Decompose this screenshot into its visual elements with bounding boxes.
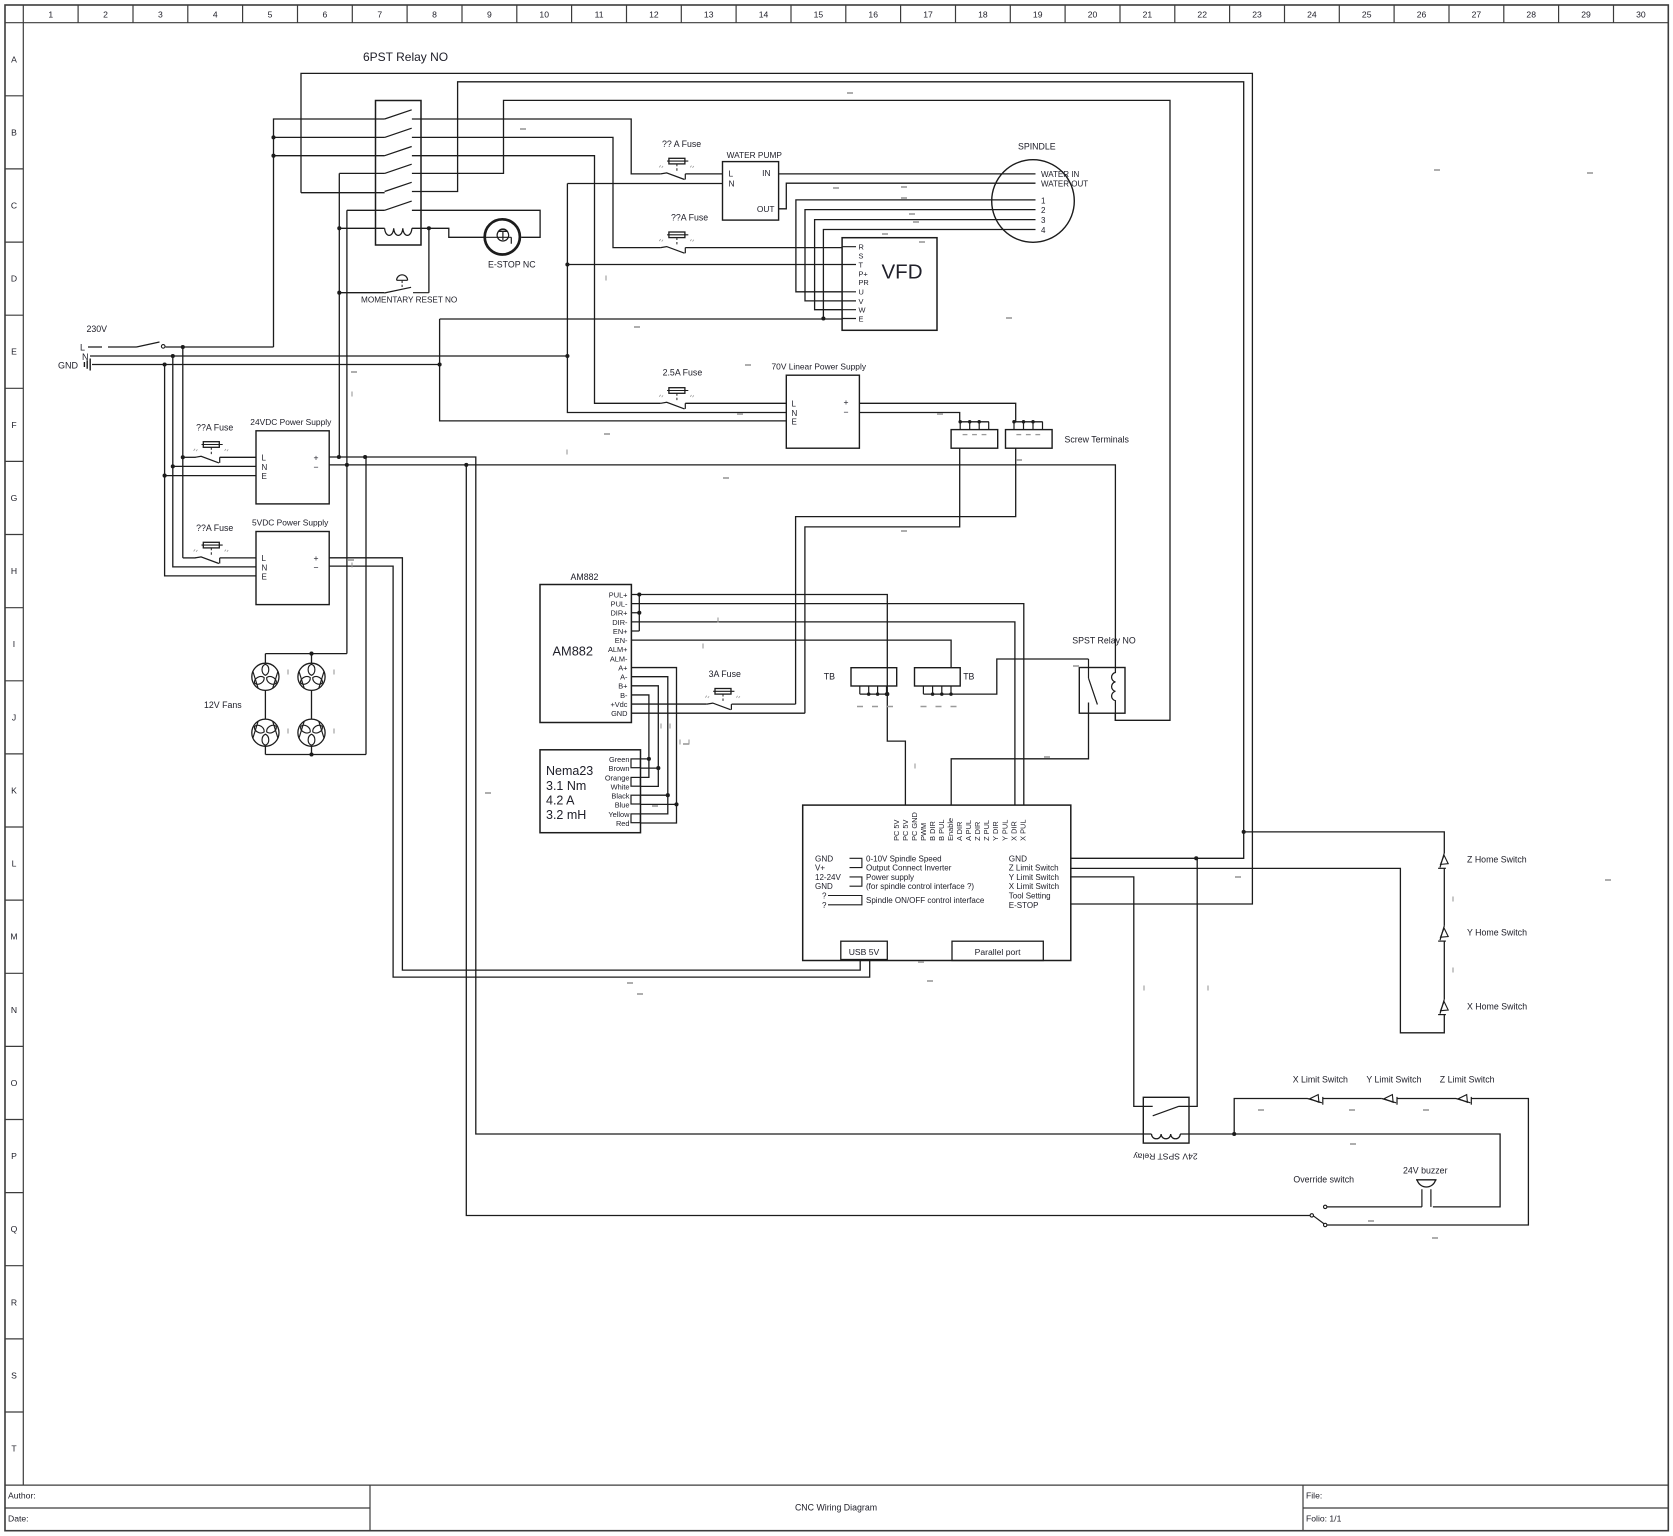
wire 24V- down to override switch: [466, 465, 1310, 1216]
svg-text:S: S: [11, 1370, 17, 1380]
svg-text:13: 13: [704, 10, 714, 20]
svg-text:22: 22: [1197, 10, 1207, 20]
svg-text:N: N: [262, 564, 268, 573]
SPST relay coil: [1112, 668, 1116, 713]
wire latch vertical contact4/coil/reset to 24V+: [339, 173, 384, 457]
wire DIR- to X DIR: [631, 622, 1015, 805]
svg-text:N: N: [729, 178, 735, 188]
svg-text:3: 3: [158, 10, 163, 20]
svg-text:24VDC Power Supply: 24VDC Power Supply: [250, 417, 332, 427]
svg-text:P: P: [11, 1151, 17, 1161]
X home switch: [1440, 999, 1444, 1013]
svg-text:Folio: 1/1: Folio: 1/1: [1306, 1514, 1342, 1524]
svg-text:26: 26: [1417, 10, 1427, 20]
svg-text:C: C: [11, 201, 17, 211]
svg-text:3A Fuse: 3A Fuse: [709, 669, 741, 679]
svg-text:B+: B+: [618, 682, 627, 691]
svg-text:Green: Green: [609, 755, 630, 764]
wire contact6 left down to 24V- and fans: [347, 210, 385, 653]
svg-text:Author:: Author:: [8, 1491, 36, 1501]
svg-text:VFD: VFD: [882, 261, 923, 284]
svg-text:E: E: [11, 347, 17, 357]
svg-text:AM882: AM882: [553, 644, 594, 659]
VFD pin stubs: [842, 247, 856, 319]
screw terminal block 2: [1006, 430, 1053, 449]
svg-text:+Vdc: +Vdc: [610, 700, 627, 709]
fuse F4 ??A Fuse (24VDC PS): [195, 456, 220, 463]
svg-text:24: 24: [1307, 10, 1317, 20]
wire: [1397, 1098, 1456, 1100]
svg-text:3: 3: [1041, 216, 1046, 225]
wire L to contacts 1-3: [274, 119, 385, 347]
svg-text:W: W: [859, 306, 866, 315]
svg-text:B: B: [11, 127, 17, 137]
svg-text:X DIR: X DIR: [1009, 821, 1018, 841]
svg-text:8: 8: [432, 10, 437, 20]
svg-text:??A Fuse: ??A Fuse: [196, 423, 233, 433]
svg-text:DIR-: DIR-: [612, 618, 628, 627]
svg-text:29: 29: [1581, 10, 1591, 20]
wire contact6 to E-STOP right: [412, 210, 540, 237]
svg-text:DIR+: DIR+: [610, 609, 627, 618]
svg-text:+: +: [844, 397, 849, 407]
wire N to VFD T: [567, 264, 842, 266]
svg-text:L: L: [729, 169, 734, 179]
wire +Vdc to 3A fuse: [631, 703, 706, 705]
svg-text:TB: TB: [824, 672, 835, 682]
svg-text:File:: File:: [1306, 1491, 1322, 1501]
svg-text:GND: GND: [1009, 854, 1027, 863]
wire N to pump and 70V PS: [567, 184, 786, 413]
svg-text:0-10V Spindle Speed: 0-10V Spindle Speed: [866, 854, 942, 863]
svg-text:−: −: [844, 407, 849, 417]
wires AM882 A/B to Nema23: [631, 668, 676, 823]
svg-text:Blue: Blue: [615, 801, 630, 810]
wire L down to PS fuses: [182, 347, 184, 558]
Nema23 pin pair brackets: [631, 759, 640, 768]
svg-text:PUL+: PUL+: [609, 590, 628, 599]
fuse F1 ?? A Fuse (water pump): [661, 173, 686, 180]
svg-text:L: L: [262, 454, 267, 463]
fan M1: [252, 663, 279, 690]
wire contact4 to SPST relay coil: [412, 100, 1170, 720]
svg-text:PUL-: PUL-: [611, 600, 628, 609]
svg-text:D: D: [11, 274, 17, 284]
svg-text:+: +: [314, 553, 319, 563]
wire GND down to PS E: [165, 365, 256, 576]
fan M2: [298, 663, 325, 690]
svg-text:N: N: [262, 463, 268, 472]
svg-text:−: −: [314, 563, 319, 573]
wire spindle 4 to E: [823, 230, 1035, 319]
svg-text:B PUL: B PUL: [937, 820, 946, 841]
wire E/GND to 70V E: [440, 319, 787, 421]
wire 5V+ to USB 5V: [329, 558, 860, 970]
svg-text:30: 30: [1636, 10, 1646, 20]
wire TB2 bus to SPST switch: [923, 659, 1088, 694]
wire: [1323, 1098, 1382, 1100]
svg-text:PC 5V: PC 5V: [892, 819, 901, 840]
svg-text:SPINDLE: SPINDLE: [1018, 142, 1056, 152]
wire fans top bus: [265, 653, 347, 655]
svg-text:U: U: [859, 288, 864, 297]
svg-text:Screw Terminals: Screw Terminals: [1065, 435, 1130, 445]
svg-text:USB 5V: USB 5V: [849, 947, 880, 957]
svg-text:2: 2: [1041, 206, 1046, 215]
wire fuse to pump L: [685, 173, 722, 175]
svg-text:GND: GND: [815, 854, 833, 863]
wire coil to buzzer right leg: [1180, 1134, 1500, 1207]
Y home switch: [1440, 926, 1444, 940]
svg-text:19: 19: [1033, 10, 1043, 20]
svg-text:Output Connect Inverter: Output Connect Inverter: [866, 864, 952, 873]
svg-text:2.5A Fuse: 2.5A Fuse: [663, 368, 703, 378]
svg-text:5VDC Power Supply: 5VDC Power Supply: [252, 518, 329, 528]
override SPDT switch: [1310, 1214, 1313, 1217]
svg-text:E-STOP: E-STOP: [1009, 901, 1039, 910]
wire 70V - to screw block1: [859, 413, 959, 422]
wire 24V- to SPST coil: [329, 465, 1115, 668]
wire screw2 + down to 3A fuse/+Vdc: [796, 448, 1016, 704]
fan M4: [298, 719, 325, 746]
24V SPST relay switch blade: [1153, 1106, 1179, 1115]
svg-text:25: 25: [1362, 10, 1372, 20]
svg-text:E: E: [262, 573, 267, 582]
wire GND to Z home switch: [1244, 832, 1445, 853]
svg-text:O: O: [11, 1078, 18, 1088]
svg-text:Spindle ON/OFF control interfa: Spindle ON/OFF control interface: [866, 896, 985, 905]
svg-text:R: R: [859, 243, 864, 252]
svg-text:IN: IN: [762, 168, 770, 178]
svg-text:24V SPST Relay: 24V SPST Relay: [1133, 1152, 1198, 1162]
wires AM882 PUL/DIR/EN bracket: [631, 595, 639, 632]
SPST relay switch: [1088, 659, 1090, 678]
svg-text:20: 20: [1088, 10, 1098, 20]
svg-text:Y Limit Switch: Y Limit Switch: [1009, 873, 1059, 882]
svg-text:I: I: [13, 639, 15, 649]
svg-text:T: T: [859, 260, 864, 269]
svg-text:Power supply: Power supply: [866, 873, 914, 882]
svg-text:L: L: [80, 343, 85, 353]
svg-text:A PUL: A PUL: [964, 820, 973, 841]
breakout left annotation brackets: [850, 858, 862, 867]
5VDC power supply box: [256, 532, 329, 605]
svg-text:Date:: Date:: [8, 1514, 29, 1524]
svg-text:WATER OUT: WATER OUT: [1041, 180, 1088, 189]
svg-text:Black: Black: [611, 791, 629, 800]
fuse F5 ??A Fuse (5VDC PS): [195, 557, 220, 564]
svg-text:A-: A-: [620, 673, 628, 682]
wire EN- to TB2: [631, 640, 951, 668]
svg-text:L: L: [792, 400, 797, 409]
Parallel port box: [952, 941, 1043, 960]
svg-text:AM882: AM882: [571, 572, 599, 582]
fuse F2 ??A Fuse (VFD): [661, 247, 686, 254]
svg-text:Z Limit Switch: Z Limit Switch: [1440, 1075, 1495, 1085]
wire up to X limit switch: [1234, 1099, 1307, 1135]
svg-text:A: A: [11, 54, 17, 64]
wire N bus: [90, 355, 567, 357]
fuse F6 3A Fuse: [707, 703, 732, 710]
wire Y Limit pin to 24V relay switch: [1070, 877, 1152, 1107]
svg-text:?: ?: [822, 901, 827, 910]
svg-text:PC 5V: PC 5V: [901, 819, 910, 840]
svg-text:H: H: [11, 566, 17, 576]
svg-text:Orange: Orange: [605, 773, 630, 782]
fuse F3 2.5A Fuse (70V PS): [661, 402, 686, 409]
svg-text:ALM+: ALM+: [608, 645, 628, 654]
terminal block TB1: [851, 668, 897, 686]
svg-text:E: E: [792, 417, 797, 426]
svg-text:−: −: [314, 462, 319, 472]
svg-text:MOMENTARY RESET NO: MOMENTARY RESET NO: [361, 296, 457, 305]
X limit switch: [1308, 1099, 1322, 1103]
svg-text:ALM-: ALM-: [610, 654, 628, 663]
svg-text:WATER PUMP: WATER PUMP: [727, 150, 783, 160]
wire override to buzzer left leg: [1327, 1206, 1422, 1208]
Y limit switch: [1382, 1099, 1396, 1103]
svg-text:EN-: EN-: [615, 636, 628, 645]
svg-text:Nema23: Nema23: [546, 764, 593, 778]
wire fuse to VFD R: [685, 247, 842, 249]
water pump box: [723, 162, 779, 221]
svg-text:+: +: [314, 452, 319, 462]
svg-text:12: 12: [649, 10, 659, 20]
svg-text:GND: GND: [815, 882, 833, 891]
svg-text:Yellow: Yellow: [608, 810, 630, 819]
svg-text:P+: P+: [859, 269, 868, 278]
svg-text:White: White: [611, 783, 630, 792]
wire 5V- to USB 5V: [329, 566, 870, 977]
wire screw1 - down to AM882 GND: [805, 448, 960, 713]
wire: [1443, 941, 1445, 999]
svg-text:10: 10: [539, 10, 549, 20]
spindle circle: [992, 160, 1075, 243]
relay K1 6PST contact block: [376, 101, 422, 246]
svg-text:X Limit Switch: X Limit Switch: [1293, 1075, 1348, 1085]
svg-text:OUT: OUT: [757, 204, 775, 214]
svg-text:M: M: [10, 932, 17, 942]
relay contacts 1-6 blades: [385, 110, 412, 119]
svg-text:11: 11: [595, 10, 604, 20]
24V SPST relay box: [1143, 1097, 1189, 1143]
svg-text:EN+: EN+: [613, 627, 628, 636]
svg-text:4.2 A: 4.2 A: [546, 794, 575, 808]
svg-text:Y Limit Switch: Y Limit Switch: [1366, 1075, 1421, 1085]
wire 70V + to screw block2: [859, 403, 1015, 422]
svg-text:PR: PR: [859, 278, 869, 287]
svg-text:WATER IN: WATER IN: [1041, 170, 1079, 179]
svg-text:Brown: Brown: [609, 764, 630, 773]
svg-text:Y Home Switch: Y Home Switch: [1467, 928, 1527, 938]
svg-text:3.2 mH: 3.2 mH: [546, 808, 586, 822]
Z limit switch: [1456, 1099, 1470, 1103]
svg-text:Z Limit Switch: Z Limit Switch: [1009, 864, 1059, 873]
svg-text:Enable: Enable: [946, 818, 955, 841]
svg-text:16: 16: [868, 10, 878, 20]
svg-text:Z PUL: Z PUL: [982, 820, 991, 841]
svg-text:Parallel port: Parallel port: [975, 947, 1021, 957]
svg-text:Y PUL: Y PUL: [1000, 820, 1009, 841]
svg-text:SPST Relay NO: SPST Relay NO: [1072, 636, 1136, 646]
screw terminal block 1: [951, 430, 998, 449]
24VDC power supply box: [256, 431, 329, 504]
fan M3: [252, 719, 279, 746]
svg-text:23: 23: [1252, 10, 1262, 20]
wire fan column right: [311, 654, 313, 755]
svg-text:PWM: PWM: [919, 823, 928, 841]
svg-text:6PST Relay NO: 6PST Relay NO: [363, 50, 448, 64]
svg-text:12-24V: 12-24V: [815, 873, 841, 882]
wire contact1 to pump fuse: [412, 119, 661, 174]
70V linear power supply box: [786, 375, 859, 448]
wire PUL+ 5V bus to TB1 and PC 5V: [639, 595, 905, 806]
svg-text:18: 18: [978, 10, 988, 20]
svg-text:21: 21: [1143, 10, 1153, 20]
wire chain to override switch: [1327, 1099, 1528, 1226]
SPST relay box: [1079, 668, 1125, 714]
svg-text:7: 7: [377, 10, 382, 20]
wire VFD E to GND: [440, 318, 842, 320]
svg-text:9: 9: [487, 10, 492, 20]
wires VFD U V W E to spindle 1-4: [796, 200, 1036, 292]
svg-text:PC GND: PC GND: [910, 812, 919, 841]
wire GND to screw1 -: [631, 712, 805, 714]
svg-text:A DIR: A DIR: [955, 822, 964, 841]
wire GND to 24V relay switch right: [1179, 858, 1198, 1106]
wire 24V+ to relay coil: [329, 457, 1151, 1134]
svg-text:27: 27: [1472, 10, 1482, 20]
svg-text:CNC Wiring Diagram: CNC Wiring Diagram: [795, 1503, 877, 1513]
svg-text:V+: V+: [815, 864, 825, 873]
svg-text:T: T: [11, 1444, 17, 1454]
svg-text:(for spindle control interface: (for spindle control interface ?): [866, 882, 974, 891]
svg-text:E: E: [859, 314, 864, 323]
svg-text:Red: Red: [616, 819, 630, 828]
svg-text:Tool Setting: Tool Setting: [1009, 892, 1051, 901]
terminal block TB2: [915, 668, 961, 686]
svg-text:?? A Fuse: ?? A Fuse: [662, 139, 701, 149]
svg-text:S: S: [859, 252, 864, 261]
svg-text:K: K: [11, 785, 17, 795]
svg-text:4: 4: [1041, 226, 1046, 235]
svg-text:L: L: [12, 859, 17, 869]
svg-text:14: 14: [759, 10, 769, 20]
svg-text:E: E: [262, 472, 267, 481]
svg-text:X PUL: X PUL: [1018, 820, 1027, 841]
24V SPST relay coil: [1152, 1134, 1181, 1139]
svg-text:J: J: [12, 712, 16, 722]
breakout board box: [803, 805, 1071, 960]
svg-text:G: G: [11, 493, 18, 503]
svg-text:B DIR: B DIR: [928, 821, 937, 841]
svg-text:R: R: [11, 1297, 17, 1307]
svg-text:Y DIR: Y DIR: [991, 821, 1000, 841]
svg-text:X Home Switch: X Home Switch: [1467, 1001, 1527, 1011]
wire contact5 to breakout GND: [412, 82, 1244, 859]
svg-text:L: L: [262, 554, 267, 563]
svg-text:Override switch: Override switch: [1293, 1174, 1354, 1184]
wire fuse to 70V L: [685, 402, 786, 404]
decorative net marks: [520, 128, 526, 130]
svg-text:Z Home Switch: Z Home Switch: [1467, 854, 1527, 864]
svg-text:TB: TB: [963, 672, 974, 682]
wire coil to E-STOP: [429, 228, 484, 237]
momentary reset NO pushbutton: [339, 228, 429, 292]
wire home chain to Z Limit pin: [1070, 868, 1444, 1032]
svg-text:A+: A+: [618, 663, 627, 672]
svg-text:3.1 Nm: 3.1 Nm: [546, 779, 586, 793]
main switch on L: [88, 346, 137, 348]
wire contact2 to VFD fuse: [412, 137, 661, 247]
svg-text:?: ?: [822, 892, 827, 901]
wire fan column left: [264, 654, 266, 755]
wire SPST switch to Enable pin: [951, 703, 1088, 806]
svg-text:GND: GND: [611, 709, 627, 718]
svg-text:2: 2: [103, 10, 108, 20]
svg-text:24V buzzer: 24V buzzer: [1403, 1166, 1448, 1176]
wire pump IN to spindle WATER IN: [779, 173, 1036, 175]
wire PUL- to X PUL: [631, 604, 1023, 805]
svg-text:70V Linear Power Supply: 70V Linear Power Supply: [772, 362, 867, 372]
Z home switch: [1440, 853, 1444, 867]
wire N down to PS: [173, 356, 256, 567]
svg-text:??A Fuse: ??A Fuse: [671, 213, 708, 223]
VFD box: [842, 238, 937, 331]
svg-text:E-STOP NC: E-STOP NC: [488, 260, 536, 270]
AM882 stepper driver box: [540, 585, 631, 723]
wire GND bus: [92, 364, 440, 366]
svg-text:15: 15: [814, 10, 824, 20]
svg-text:F: F: [11, 420, 16, 430]
svg-text:V: V: [859, 297, 864, 306]
USB 5V box: [841, 941, 888, 959]
svg-text:17: 17: [923, 10, 933, 20]
svg-text:Q: Q: [11, 1224, 18, 1234]
svg-text:6: 6: [322, 10, 327, 20]
svg-text:12V Fans: 12V Fans: [204, 700, 242, 710]
wire SPST coil to contact4 line: [1115, 713, 1170, 721]
svg-text:B-: B-: [620, 691, 628, 700]
Nema23 stepper motor box: [540, 750, 641, 833]
svg-text:4: 4: [213, 10, 218, 20]
wire contact5-left top frame to breakout E-STOP: [301, 73, 1252, 904]
svg-text:N: N: [11, 1005, 17, 1015]
svg-text:230V: 230V: [87, 324, 108, 334]
wire: [1443, 868, 1445, 926]
svg-text:??A Fuse: ??A Fuse: [196, 523, 233, 533]
svg-text:1: 1: [1041, 196, 1046, 205]
svg-text:5: 5: [268, 10, 273, 20]
wire TB1 pin bus: [860, 693, 888, 695]
relay K1 coil: [339, 227, 384, 229]
wire pump OUT to spindle WATER OUT: [779, 183, 1036, 209]
wire contact3 to 2.5A fuse: [412, 156, 661, 404]
ground symbol: [84, 359, 90, 371]
svg-text:GND: GND: [58, 361, 79, 371]
wire fans bottom bus to 24V+: [265, 457, 366, 755]
svg-text:X Limit Switch: X Limit Switch: [1009, 882, 1059, 891]
svg-text:28: 28: [1526, 10, 1536, 20]
wire contact5 left: [301, 192, 385, 194]
svg-text:Z DIR: Z DIR: [973, 822, 982, 841]
svg-text:1: 1: [48, 10, 53, 20]
